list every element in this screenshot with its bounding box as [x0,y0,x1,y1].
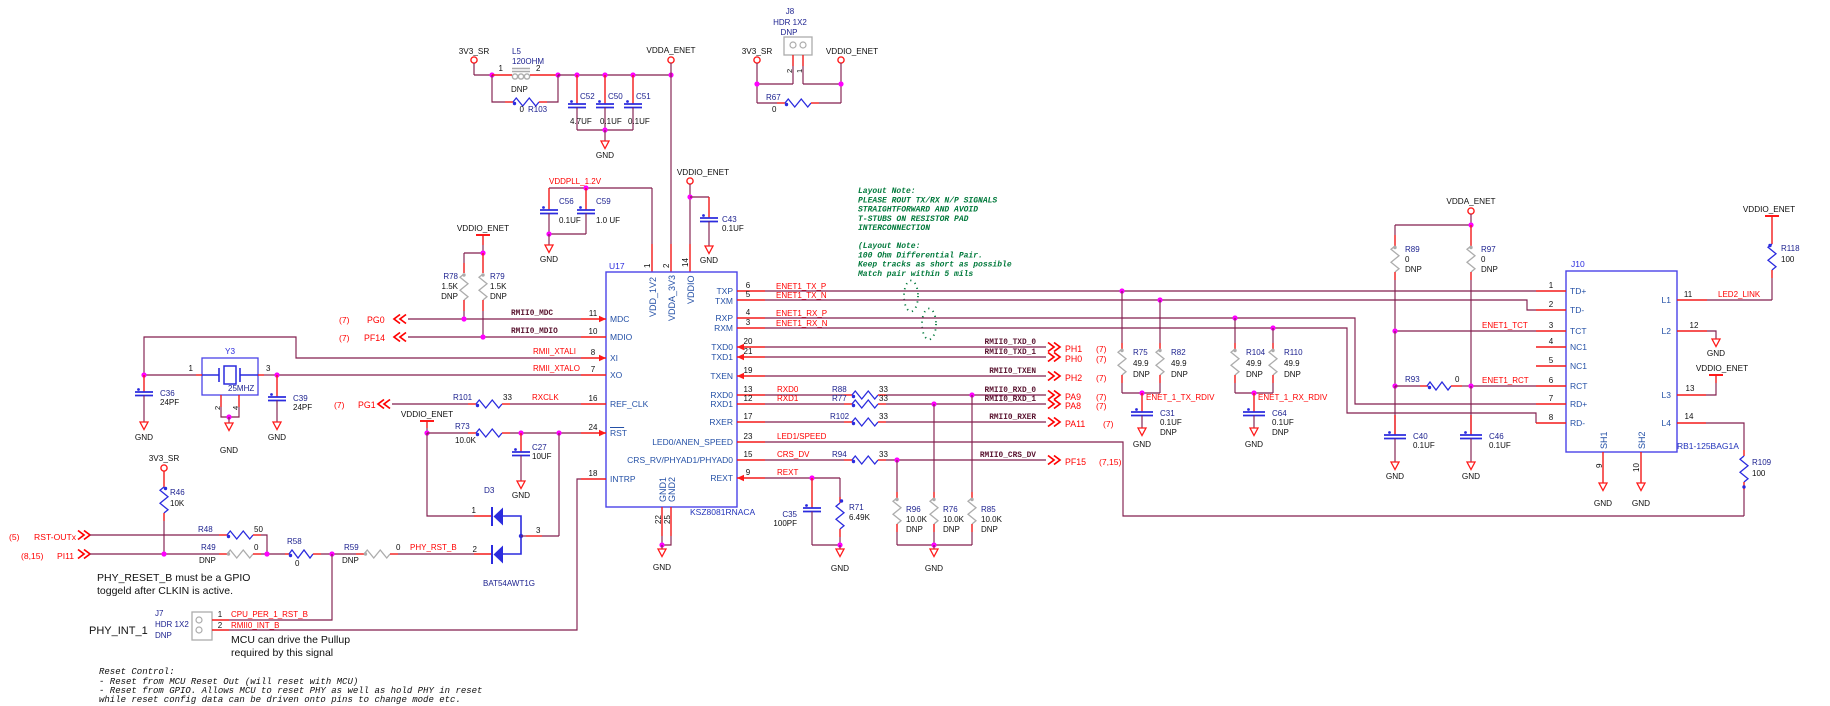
resistor R48 50 [198,525,267,554]
pin 1 of J7 / net CPU_PER_1_RST_B [212,554,332,620]
net label VDDPLL_1.2V [549,177,602,186]
svg-text:6.49K: 6.49K [849,513,871,522]
svg-text:L1: L1 [1662,295,1672,305]
svg-text:0: 0 [520,105,525,114]
wire L3 to VDDIO_ENET [1706,375,1716,395]
svg-text:33: 33 [879,394,888,403]
svg-text:Reset Control:: Reset Control: [99,667,175,677]
svg-text:0: 0 [772,105,777,114]
svg-text:VDDIO_ENET: VDDIO_ENET [1696,364,1748,373]
offpage connector PI11 [21,550,90,562]
svg-text:GND: GND [1245,440,1263,449]
svg-text:VDDA_ENET: VDDA_ENET [646,46,695,55]
svg-text:7: 7 [1549,394,1554,403]
wire top rail to VDDA_ENET [558,74,671,76]
wire 3V3_SR to rail [474,63,492,75]
svg-text:PA11: PA11 [1065,419,1085,429]
svg-text:ENET1_TCT: ENET1_TCT [1482,321,1528,330]
connector J7 HDR 1X2 DNP [155,609,212,640]
svg-text:49.9: 49.9 [1133,359,1149,368]
svg-text:PHY_RST_B: PHY_RST_B [410,543,457,552]
svg-text:17: 17 [744,412,753,421]
svg-text:14: 14 [681,258,690,267]
svg-text:R94: R94 [832,450,847,459]
svg-text:DNP: DNP [981,525,998,534]
svg-text:PG1: PG1 [358,400,376,410]
svg-text:(7): (7) [1096,354,1107,364]
svg-text:VDDA_3V3: VDDA_3V3 [667,275,677,321]
svg-text:RMII0_TXEN: RMII0_TXEN [989,368,1036,376]
svg-text:0.1UF: 0.1UF [600,117,622,126]
svg-text:6: 6 [1549,376,1554,385]
svg-text:C31: C31 [1160,409,1175,418]
svg-text:VDDIO_ENET: VDDIO_ENET [677,168,729,177]
svg-text:(5): (5) [9,532,20,542]
ground below C39 [268,422,286,442]
wire RMII0_TXEN / offpage PH2 [765,368,1107,383]
svg-text:T-STUBS ON RESISTOR PAD: T-STUBS ON RESISTOR PAD [858,215,969,224]
svg-text:GND: GND [512,491,530,500]
svg-text:D3: D3 [484,486,495,495]
capacitor C50 0.1UF [596,75,623,130]
node junction R93 right / RCT [1468,383,1473,388]
capacitor C36 24PF [135,375,179,422]
svg-text:Keep tracks as short as poss: Keep tracks as short as possible [858,261,1012,270]
svg-text:GND2: GND2 [667,477,677,502]
svg-text:4.7UF: 4.7UF [570,117,592,126]
svg-text:12: 12 [1690,321,1699,330]
svg-text:RXCLK: RXCLK [532,393,559,402]
svg-text:24PF: 24PF [160,398,179,407]
net label ENET1_RCT / wire RCT [1471,376,1536,386]
svg-text:HDR 1X2: HDR 1X2 [773,18,807,27]
pin 2 TD- of J10 [1536,300,1584,315]
node junction R82/TX_N [1157,297,1162,302]
svg-text:RXD1: RXD1 [710,399,733,409]
svg-text:PI11: PI11 [57,551,74,561]
ground below C64 [1245,428,1263,449]
svg-text:6: 6 [746,281,751,290]
resistor R59 0 DNP [342,543,401,565]
pin 8 RD- of J10 [1536,413,1585,428]
svg-text:BAT54AWT1G: BAT54AWT1G [483,579,535,588]
svg-text:GND: GND [1133,440,1151,449]
node junction pulldown GND [931,542,936,547]
node junction Y3 ground [226,414,231,419]
svg-text:9: 9 [746,468,751,477]
node VDDA rail junction [668,72,673,77]
resistor R89 0 DNP [1391,235,1422,331]
svg-text:RXM: RXM [714,323,733,333]
svg-text:5: 5 [1549,356,1554,365]
svg-text:3V3_SR: 3V3_SR [459,47,490,56]
pin 12 RXD1 of U17 [710,394,765,409]
svg-text:R109: R109 [1752,458,1772,467]
svg-text:GND: GND [220,446,238,455]
svg-text:3: 3 [266,364,271,373]
svg-text:PF15: PF15 [1065,457,1086,467]
net label RXD1 / resistor R77 33 [765,394,1046,408]
power symbol VDDIO_ENET (above R73) [401,410,453,421]
svg-text:8: 8 [1549,413,1554,422]
svg-text:33: 33 [879,412,888,421]
svg-text:INTRP: INTRP [610,474,636,484]
pin 10 MDIO of U17 [581,327,633,342]
pin 22 GND1 of U17 [654,477,668,536]
offpage connector PG1 [334,400,390,411]
svg-text:ENET_1_TX_RDIV: ENET_1_TX_RDIV [1146,393,1215,402]
svg-text:MDIO: MDIO [610,332,633,342]
node junction C59 top [583,185,588,190]
node junction R93 left [1392,383,1397,388]
svg-text:R101: R101 [453,393,473,402]
pin 21 TXD1 of U17 [711,347,765,362]
wire cap bottom rail [577,129,633,131]
svg-text:toggeld after CLKIN is active.: toggeld after CLKIN is active. [97,585,233,597]
pin 19 TXEN of U17 [710,366,765,381]
svg-text:REXT: REXT [777,468,798,477]
svg-text:4: 4 [746,308,751,317]
svg-text:R103: R103 [528,105,548,114]
svg-text:VDDIO_ENET: VDDIO_ENET [401,410,453,419]
svg-text:C51: C51 [636,92,651,101]
pin 16 REF_CLK of U17 [581,394,649,409]
svg-text:RMII0_RXER: RMII0_RXER [989,414,1036,422]
svg-text:20: 20 [744,337,753,346]
svg-text:49.9: 49.9 [1171,359,1187,368]
pin 4 NC1 of J10 [1536,337,1587,352]
pin 2 of J8 [785,55,794,84]
wire VDDPLL net to U17 pin 1 [549,188,652,272]
node bottom rail junction [602,127,607,132]
pin 13 L3 of J10 [1662,384,1706,400]
svg-text:ENET1_RX_N: ENET1_RX_N [776,319,828,328]
svg-text:RXD1: RXD1 [777,394,799,403]
svg-text:TCT: TCT [1570,326,1587,336]
capacitor C40 0.1UF [1384,386,1435,462]
capacitor C64 0.1UF DNP [1243,393,1294,437]
pin 9 REXT of U17 [710,468,765,483]
svg-text:14: 14 [1685,412,1694,421]
wire R89 column TCT to RCT [1394,331,1396,386]
svg-text:RMII0_TXD_1: RMII0_TXD_1 [985,349,1037,357]
svg-text:RMII0_CRS_DV: RMII0_CRS_DV [980,452,1036,460]
svg-text:1.0 UF: 1.0 UF [596,216,620,225]
power symbol VDDA_ENET (right) [1446,197,1495,214]
svg-text:10.0K: 10.0K [943,515,965,524]
ground below Y3 [220,417,238,455]
connector J8 HDR 1X2 DNP [773,7,812,55]
svg-text:RMII0_MDC: RMII0_MDC [511,310,553,318]
svg-text:RMII0_INT_B: RMII0_INT_B [231,621,279,630]
svg-text:1.5K: 1.5K [442,282,459,291]
ground below U17 [653,545,671,572]
svg-text:GND: GND [540,255,558,264]
svg-text:RMII0_RXD_0: RMII0_RXD_0 [985,387,1037,395]
svg-text:1: 1 [1549,281,1554,290]
svg-text:10: 10 [589,327,598,336]
svg-text:VDDIO_ENET: VDDIO_ENET [457,224,509,233]
annotation reset control notes [99,667,482,705]
svg-text:CRS_RV/PHYAD1/PHYAD0: CRS_RV/PHYAD1/PHYAD0 [627,455,733,465]
annotation differential pair ellipse TX (green dotted) [904,281,918,312]
svg-text:PF14: PF14 [364,333,385,343]
node junction R110/RX_N [1270,325,1275,330]
node GND junction under U17 [659,542,664,547]
resistor R79 1.5K DNP [479,253,507,337]
svg-text:3: 3 [536,526,541,535]
svg-text:while reset config data can be: while reset config data can be driven on… [99,695,461,705]
svg-text:R97: R97 [1481,245,1496,254]
capacitor C27 10UF [512,433,552,481]
node junction R78/MDC [461,316,466,321]
pin 14 L4 of J10 [1662,412,1706,428]
svg-text:VDDPLL_1.2V: VDDPLL_1.2V [549,177,602,186]
ground below L2 [1707,339,1725,358]
connector J10 RB1-125BAG1A body [1566,259,1739,452]
resistor R76 10.0K DNP [930,404,965,545]
resistor R96 10.0K DNP [893,460,928,545]
wire XO net [277,374,581,376]
resistor R58 0 [285,537,321,568]
svg-text:CRS_DV: CRS_DV [777,450,810,459]
resistor R97 0 DNP [1467,225,1498,386]
svg-text:33: 33 [879,450,888,459]
power symbol VDDIO_ENET (above R78/R79) [457,224,509,235]
pin 8 XI of U17 [581,348,618,363]
svg-text:R46: R46 [170,488,185,497]
svg-text:R96: R96 [906,505,921,514]
svg-text:XI: XI [610,353,618,363]
node junction R71 GND [837,542,842,547]
svg-text:0: 0 [254,543,259,552]
ground below C43 [700,246,718,265]
svg-text:16: 16 [589,394,598,403]
svg-text:12: 12 [744,394,753,403]
svg-text:18: 18 [589,469,598,478]
ground below C50 [596,130,614,160]
svg-text:C43: C43 [722,215,737,224]
svg-text:11: 11 [589,309,598,318]
capacitor C46 0.1UF [1460,386,1511,462]
svg-text:C64: C64 [1272,409,1287,418]
svg-text:8: 8 [591,348,596,357]
svg-text:R76: R76 [943,505,958,514]
wire D3 common cathode to RST [558,433,560,536]
svg-text:22: 22 [654,515,663,524]
net label PHY_RST_B / wire to D3 pin 2 [398,543,491,554]
svg-text:J7: J7 [155,609,164,618]
svg-text:TXD1: TXD1 [711,352,733,362]
pin 2 of J7 / net RMII0_INT_B [212,479,581,630]
net label ENET1_TX_N / wire TXM to J10 TD- [765,291,1536,310]
svg-text:DNP: DNP [943,525,960,534]
svg-text:GND: GND [596,151,614,160]
node junction VDDA/R97 [1468,222,1473,227]
svg-text:REXT: REXT [710,473,733,483]
ground below C40 [1386,462,1404,481]
svg-text:(7): (7) [339,315,350,325]
wire ENET_1_RX_RDIV rail [1235,392,1273,394]
svg-text:(7): (7) [334,400,345,410]
svg-text:RXER: RXER [709,417,733,427]
svg-text:100 Ohm Differential Pair.: 100 Ohm Differential Pair. [858,251,983,260]
node junction CRS_DV/R96 [894,457,899,462]
node junction Y3 pin3 / C39 [274,372,279,377]
svg-text:1: 1 [189,364,194,373]
svg-text:(7): (7) [1096,373,1107,383]
svg-text:9: 9 [1595,463,1604,468]
capacitor C52 4.7UF [568,75,595,130]
svg-text:TXP: TXP [716,286,733,296]
svg-text:R48: R48 [198,525,213,534]
svg-text:PH2: PH2 [1065,373,1082,383]
node junction R104/RX_P [1232,315,1237,320]
svg-text:33: 33 [879,385,888,394]
pin 12 L2 of J10 [1662,321,1707,336]
power symbol VDDIO_ENET (L3) [1696,364,1748,375]
svg-text:19: 19 [744,366,753,375]
node junction RXD1/R76 [931,401,936,406]
svg-text:INTERCONNECTION: INTERCONNECTION [858,224,930,233]
svg-text:0.1UF: 0.1UF [1489,441,1511,450]
svg-text:R59: R59 [344,543,359,552]
pin 1 VDD_1V2 label [643,263,658,317]
ground below R71 [831,545,849,573]
node junction R89/TCT [1392,328,1397,333]
power symbol 3V3_SR (R46) [149,454,180,471]
svg-text:R79: R79 [490,272,505,281]
svg-text:GND: GND [831,564,849,573]
svg-text:LED1/SPEED: LED1/SPEED [777,432,827,441]
svg-text:(7): (7) [339,333,350,343]
svg-text:7: 7 [591,365,596,374]
svg-text:VDDIO: VDDIO [686,275,696,304]
svg-text:GND: GND [135,433,153,442]
svg-text:DNP: DNP [1481,265,1498,274]
net label ENET_1_RX_RDIV [1258,393,1328,402]
svg-text:PG0: PG0 [367,315,385,325]
ground below C36 [135,422,153,442]
inductor L5 120OHM [492,47,558,94]
svg-text:3V3_SR: 3V3_SR [742,47,773,56]
svg-text:10.0K: 10.0K [455,436,477,445]
svg-text:2: 2 [1549,300,1554,309]
svg-text:R104: R104 [1246,348,1266,357]
pin 24 RST of U17 [581,423,627,438]
resistor R73 10.0K [427,422,581,445]
node junction TX_RDIV / C31 [1139,390,1144,395]
svg-text:RD+: RD+ [1570,399,1587,409]
svg-text:C39: C39 [293,394,308,403]
svg-text:GND: GND [1386,472,1404,481]
ground below SH1 [1594,483,1612,508]
svg-text:XO: XO [610,370,623,380]
power symbol VDDIO_ENET (above C43) [677,168,729,184]
svg-text:GND: GND [1594,499,1612,508]
ground below SH2 [1632,483,1650,508]
net label ENET1_TCT / wire TCT [1395,321,1536,331]
svg-text:RMII0_MDIO: RMII0_MDIO [511,328,558,336]
node junction VDDIO/R73 [424,430,429,435]
svg-text:C46: C46 [1489,432,1504,441]
ground below C31 [1133,428,1151,449]
svg-text:1: 1 [472,506,477,515]
svg-text:C52: C52 [580,92,595,101]
svg-text:49.9: 49.9 [1284,359,1300,368]
wire RMII0_MDC / net label [408,310,581,319]
capacitor C39 24PF [268,375,312,422]
svg-text:PH0: PH0 [1065,354,1082,364]
svg-text:L3: L3 [1662,390,1672,400]
svg-text:0: 0 [1481,255,1486,264]
wire RMII0_TXD_1 / offpage PH0 [765,349,1107,364]
resistor R103 0 ohm bypass [492,75,558,114]
svg-text:5: 5 [746,290,751,299]
pin 9 SH1 of J10 [1595,431,1609,483]
ground below C27 [512,481,530,500]
svg-text:RB1-125BAG1A: RB1-125BAG1A [1677,441,1739,451]
svg-text:DNP: DNP [1246,370,1263,379]
node junction Y3 pin1 / C36 [141,372,146,377]
pin 23 LED0/ANEN_SPEED of U17 [652,432,765,447]
svg-text:0: 0 [1405,255,1410,264]
svg-text:TXD0: TXD0 [711,342,733,352]
svg-text:ENET1_RCT: ENET1_RCT [1482,376,1529,385]
svg-text:required by this signal: required by this signal [231,647,333,659]
svg-text:GND: GND [1707,349,1725,358]
svg-text:RST: RST [610,428,627,438]
capacitor C59 1.0 UF [577,188,620,234]
svg-text:DNP: DNP [1272,428,1289,437]
svg-text:PLEASE ROUT TX/RX N/P SIGNALS: PLEASE ROUT TX/RX N/P SIGNALS [858,196,997,205]
svg-text:100PF: 100PF [773,519,797,528]
svg-text:R75: R75 [1133,348,1148,357]
net label RXD0 / resistor R88 33 [765,385,1046,399]
svg-text:10.0K: 10.0K [906,515,928,524]
svg-text:R118: R118 [1781,244,1800,253]
svg-text:R49: R49 [201,543,216,552]
svg-text:DNP: DNP [155,631,172,640]
svg-text:0.1UF: 0.1UF [722,224,744,233]
wire REF_CLK net left part [392,403,468,405]
wire L2 to GND [1707,331,1716,339]
svg-text:VDD_1V2: VDD_1V2 [648,277,658,317]
resistor R102 33 / RXER row [765,412,1046,426]
capacitor C56 0.1UF [540,188,581,234]
svg-text:RMII_XTALI: RMII_XTALI [533,347,576,356]
node junction D3 pin3 riser / RST [556,430,561,435]
svg-text:0: 0 [1455,375,1460,384]
wire C56/C59 bottoms [549,233,586,235]
svg-text:TXM: TXM [715,296,733,306]
wire VDDA_ENET trunk down to U17 pin 2 [670,63,672,272]
svg-text:3: 3 [1549,321,1554,330]
svg-text:25MHZ: 25MHZ [228,384,254,393]
annotation layout note 2 (green) [857,242,1012,279]
svg-text:(8,15): (8,15) [21,551,44,561]
svg-text:3V3_SR: 3V3_SR [149,454,180,463]
offpage connector RST-OUTx [9,531,90,543]
svg-text:R110: R110 [1284,348,1303,357]
node junction R46 bottom / PI11 [161,551,166,556]
wire VDDA_ENET rail to R89/R97 [1395,214,1471,235]
svg-text:R73: R73 [455,422,470,431]
node junction C50 [602,72,607,77]
svg-text:MDC: MDC [610,314,629,324]
wire RMII0_MDIO / net label [408,328,581,337]
svg-text:R85: R85 [981,505,996,514]
